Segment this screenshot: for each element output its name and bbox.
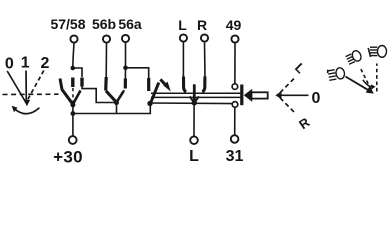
rotary axis dashed line: [3, 93, 59, 95]
node dot on 57/58 wire: [71, 66, 76, 71]
node dot dimmer: [147, 101, 152, 106]
icon high beam: [368, 46, 386, 58]
wire 56b down: [105, 43, 107, 78]
svg-text:0: 0: [312, 90, 321, 107]
node vertex turn signal: [192, 100, 197, 105]
wire 31 down: [234, 107, 236, 135]
wire branch from 57/58 dot: [73, 68, 82, 77]
wiper arm pole1 short: [73, 91, 81, 105]
icon low beam left: [327, 67, 345, 81]
terminal +30: [69, 136, 77, 144]
terminal 56a: [122, 35, 129, 42]
beam fan dashed vertical: [376, 64, 378, 92]
arrow actuation shaft head: [244, 89, 252, 102]
beam fan dashed middle: [360, 67, 371, 90]
wiper arm pole2 right: [117, 91, 124, 102]
arrow actuation dimmer: [160, 79, 170, 91]
svg-text:R: R: [296, 114, 313, 132]
beam fan arrowhead at pivot: [366, 86, 374, 94]
node vertex pole2: [114, 100, 119, 105]
node dot on 56a wire: [123, 66, 128, 71]
svg-text:1: 1: [21, 55, 30, 72]
terminal 56b: [103, 35, 110, 42]
node vertex pole1: [70, 102, 75, 107]
wedge arm left: [190, 96, 195, 102]
coupling dashes pole1: [72, 88, 74, 102]
svg-text:57/58: 57/58: [50, 16, 85, 32]
wire lower bus: [150, 102, 232, 105]
icon low beam middle: [345, 49, 363, 65]
lever line L dashed: [280, 77, 296, 93]
wire branch 56a to dimmer contact: [126, 68, 149, 79]
beam fan solid line: [346, 77, 370, 91]
svg-text:R: R: [197, 17, 207, 33]
terminal 31: [231, 135, 239, 143]
contact tip L curved: [184, 77, 187, 92]
wire 56a continue: [124, 68, 126, 79]
lever line 0: [281, 94, 309, 96]
wire 49 down: [234, 43, 236, 84]
contact circle 31: [232, 102, 238, 108]
terminal L bottom: [190, 136, 198, 144]
contact tip R curved: [202, 77, 205, 92]
lever line R dashed: [280, 98, 296, 114]
contact tip dimmer stationary: [147, 78, 150, 91]
contact tip 56a: [124, 79, 127, 89]
rotary position line 1: [25, 71, 27, 101]
rotary pointer arrowhead: [24, 100, 31, 106]
terminal R top: [201, 34, 208, 41]
wire rail +30: [73, 104, 150, 114]
wire step from branch contact: [82, 86, 114, 103]
rotary position line 0: [7, 71, 25, 102]
wire R top down: [204, 42, 207, 78]
node junction rail: [71, 111, 76, 116]
shaft lower line: [151, 96, 240, 98]
svg-text:0: 0: [5, 56, 14, 73]
wire L top down: [182, 42, 184, 78]
svg-text:56b: 56b: [92, 16, 116, 32]
contact circle 49: [232, 84, 238, 90]
wiper arm dimmer: [151, 83, 159, 104]
svg-text:49: 49: [226, 17, 242, 33]
end plate of shaft: [240, 85, 243, 106]
coupling dashes pole2: [119, 90, 125, 100]
beam fan swing arc arrow: [363, 80, 374, 87]
svg-text:56a: 56a: [118, 16, 142, 32]
svg-text:31: 31: [226, 148, 244, 165]
contact tip branch: [80, 78, 83, 87]
rotary position line 2 dashed: [28, 71, 44, 100]
wiper arm pole1 long: [60, 79, 73, 105]
wiper arm pole2 left: [106, 91, 117, 103]
contact tip 56b: [104, 77, 108, 91]
svg-text:L: L: [178, 17, 187, 33]
wedge arm right: [194, 96, 199, 102]
wiper wedge turn signal: [193, 84, 196, 102]
terminal 57/58: [70, 35, 77, 42]
rotary arc arrowhead left: [12, 106, 18, 113]
svg-text:L: L: [189, 148, 199, 165]
svg-text:+30: +30: [53, 148, 83, 167]
arrow actuation shaft tail: [252, 92, 268, 98]
wire 57/58 down: [73, 43, 74, 70]
contact tip 57/58: [71, 78, 74, 88]
wire +30 riser: [72, 105, 74, 136]
wire vertex2 to rail: [116, 103, 118, 114]
wire 56a down: [125, 42, 127, 68]
rotary swing arc: [14, 108, 40, 114]
terminal L top: [180, 34, 187, 41]
svg-text:L: L: [292, 60, 308, 76]
wire L bottom riser: [193, 103, 195, 136]
terminal 49: [231, 35, 238, 42]
svg-text:2: 2: [41, 55, 50, 72]
lever fan pivot arrowhead: [275, 91, 281, 99]
shaft upper line: [151, 92, 240, 94]
